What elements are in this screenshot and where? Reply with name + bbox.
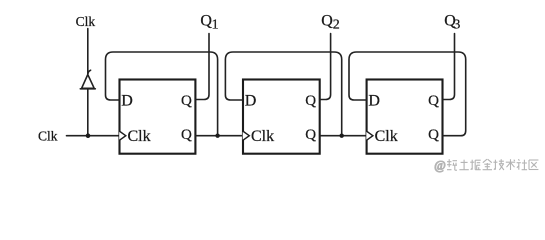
- svg-text:Clk: Clk: [128, 128, 151, 145]
- svg-text:Q: Q: [305, 93, 316, 109]
- svg-text:D: D: [245, 93, 257, 110]
- svg-text:Q: Q: [305, 127, 316, 143]
- D flip-flop U1 box: [120, 80, 196, 154]
- svg-text:Clk: Clk: [76, 14, 96, 29]
- wire feedback arc Qbar1 to D1: [106, 52, 218, 136]
- U2 clock edge chevron: [243, 131, 250, 140]
- svg-text:2: 2: [333, 17, 340, 32]
- junction Qbar1 / feedback arc: [215, 134, 219, 138]
- wire Q3 output tap: [443, 34, 455, 100]
- svg-text:Q: Q: [181, 127, 192, 143]
- wire feedback arc Qbar3 to D3: [349, 52, 466, 136]
- watermark @juejin community (vector fake hanzi): [434, 158, 538, 172]
- wire Qbar1 to Clk of U2: [195, 135, 243, 137]
- wire buffer to clock rail: [87, 90, 89, 136]
- wire Qbar2 to Clk of U3: [320, 135, 367, 137]
- wire Q1 output tap: [195, 34, 209, 100]
- D flip-flop U3 box: [367, 80, 443, 154]
- wire feedback arc Qbar2 to D2: [225, 52, 341, 136]
- svg-text:Clk: Clk: [38, 128, 58, 143]
- wire Q2 output tap: [320, 34, 331, 100]
- buffer B1 (triangle in clock line): [80, 70, 95, 89]
- svg-text:Q: Q: [200, 12, 212, 29]
- U3 clock edge chevron: [366, 131, 373, 140]
- svg-text:@: @: [434, 158, 446, 172]
- wire Clk label to buffer: [87, 29, 89, 75]
- svg-text:Clk: Clk: [251, 128, 274, 145]
- svg-text:D: D: [121, 93, 133, 110]
- U1 clock edge chevron: [119, 131, 126, 140]
- svg-text:Q: Q: [321, 12, 333, 29]
- svg-text:Q: Q: [428, 127, 439, 143]
- junction Qbar2 / feedback arc: [340, 134, 344, 138]
- D flip-flop U2 box: [243, 80, 320, 154]
- wire Clk input rail: [67, 135, 120, 137]
- svg-text:Clk: Clk: [375, 128, 398, 145]
- svg-text:1: 1: [212, 17, 219, 32]
- svg-text:Q: Q: [428, 93, 439, 109]
- junction clock rail / buffer branch: [86, 133, 91, 138]
- svg-text:Q: Q: [181, 93, 192, 109]
- svg-text:3: 3: [453, 17, 460, 32]
- svg-text:D: D: [368, 93, 380, 110]
